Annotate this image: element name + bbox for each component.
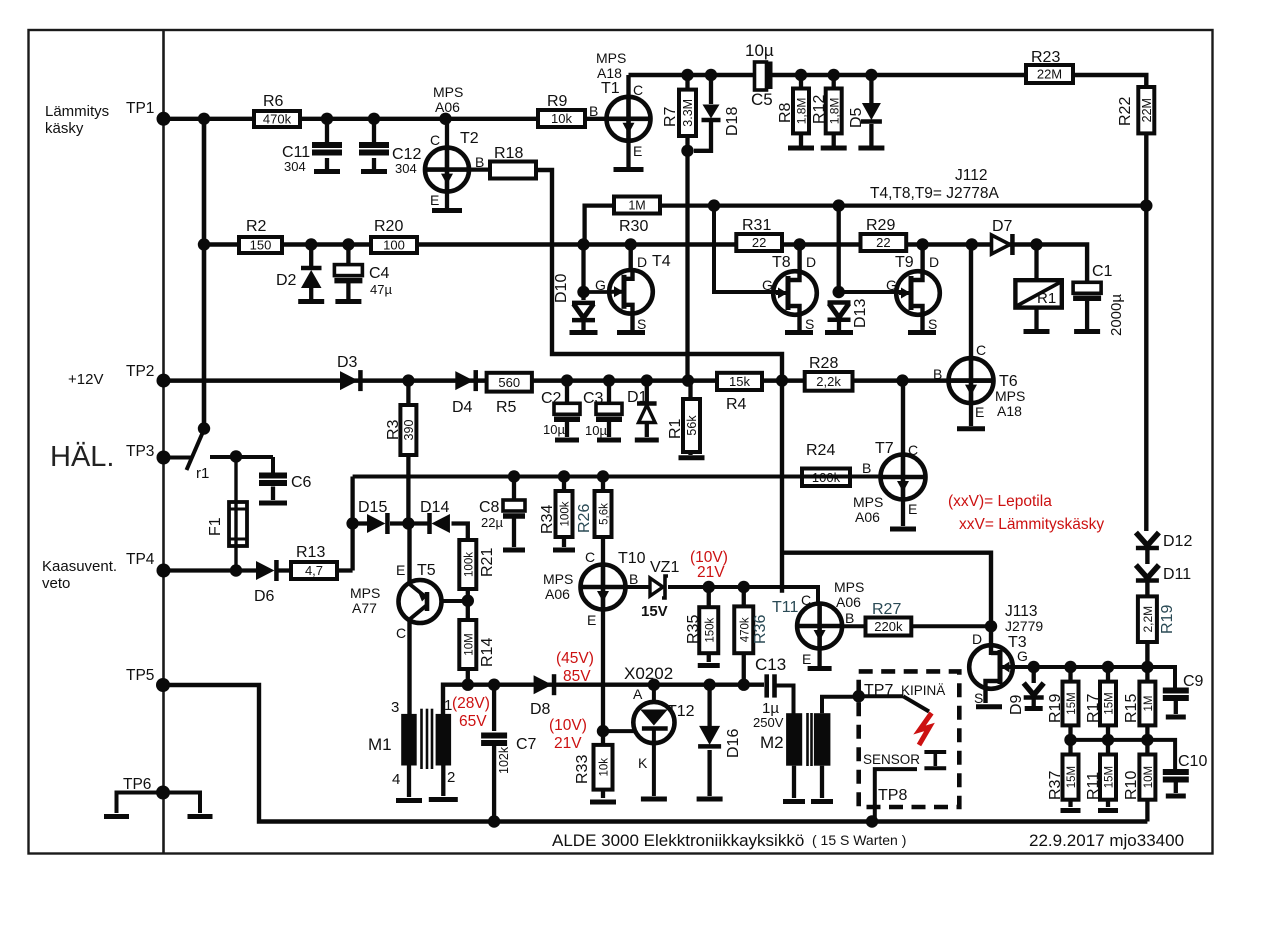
transistor T11 bbox=[797, 604, 842, 649]
svg-text:304: 304 bbox=[395, 161, 417, 176]
wire TP5 to bottom rail bbox=[163, 685, 1147, 822]
svg-text:D2: D2 bbox=[276, 272, 297, 289]
svg-text:r1: r1 bbox=[196, 465, 209, 482]
svg-text:D6: D6 bbox=[254, 588, 275, 605]
svg-text:D5: D5 bbox=[848, 107, 865, 128]
svg-text:560: 560 bbox=[498, 375, 520, 390]
svg-text:TP8: TP8 bbox=[878, 787, 907, 804]
wire TP8 bbox=[875, 769, 917, 821]
wire T2 emitter bbox=[445, 192, 449, 208]
switch spark gap bbox=[859, 694, 903, 698]
svg-text:TP5: TP5 bbox=[126, 667, 154, 684]
wire R14 bottom bbox=[466, 669, 470, 685]
svg-text:D: D bbox=[929, 254, 939, 270]
svg-text:304: 304 bbox=[284, 159, 306, 174]
svg-text:102k: 102k bbox=[497, 746, 511, 774]
svg-text:D13: D13 bbox=[852, 299, 869, 328]
svg-text:R21: R21 bbox=[479, 548, 496, 577]
resistor R15 bbox=[1145, 667, 1149, 740]
svg-text:B: B bbox=[589, 103, 598, 119]
svg-text:22µ: 22µ bbox=[481, 515, 503, 530]
fuse F1 bbox=[234, 457, 237, 569]
wire +12V rail bbox=[164, 378, 994, 383]
resistor R27 bbox=[866, 618, 912, 636]
wire M2 left bottom bbox=[792, 766, 796, 798]
capacitor C4 bbox=[346, 245, 350, 265]
svg-text:21V: 21V bbox=[554, 735, 582, 752]
svg-text:TP3: TP3 bbox=[126, 443, 154, 460]
svg-text:TP4: TP4 bbox=[126, 551, 155, 568]
resistor R7 bbox=[685, 75, 689, 151]
transistor T7 bbox=[901, 381, 905, 455]
svg-text:B: B bbox=[862, 460, 871, 476]
diode D5 bbox=[869, 75, 873, 103]
wire T11 emitter bbox=[817, 649, 821, 667]
svg-text:D: D bbox=[806, 254, 816, 270]
svg-text:R23: R23 bbox=[1031, 49, 1060, 66]
svg-text:MPS: MPS bbox=[995, 388, 1025, 404]
svg-text:R10: R10 bbox=[1123, 771, 1140, 800]
svg-text:A06: A06 bbox=[855, 509, 880, 525]
svg-text:D11: D11 bbox=[1163, 566, 1191, 583]
svg-text:D12: D12 bbox=[1163, 533, 1192, 550]
svg-text:A77: A77 bbox=[352, 600, 377, 616]
svg-text:22.9.2017 mjo33400: 22.9.2017 mjo33400 bbox=[1029, 831, 1184, 850]
svg-text:R15: R15 bbox=[1123, 694, 1140, 723]
svg-text:käsky: käsky bbox=[45, 120, 84, 137]
svg-text:4: 4 bbox=[392, 771, 400, 788]
svg-text:B: B bbox=[933, 366, 942, 382]
diode D4 bbox=[455, 371, 473, 390]
svg-text:150: 150 bbox=[250, 238, 272, 253]
resistor R13 bbox=[278, 568, 291, 572]
svg-text:15M: 15M bbox=[1066, 766, 1078, 788]
svg-text:100k: 100k bbox=[560, 501, 572, 526]
svg-text:T1: T1 bbox=[601, 80, 620, 97]
svg-text:390: 390 bbox=[402, 420, 416, 441]
svg-text:+12V: +12V bbox=[68, 371, 103, 388]
resistor R34 bbox=[562, 477, 566, 548]
svg-text:R12: R12 bbox=[811, 95, 828, 124]
svg-text:R17: R17 bbox=[1085, 694, 1102, 723]
svg-text:C: C bbox=[585, 549, 595, 565]
svg-text:E: E bbox=[802, 651, 811, 667]
svg-text:R19: R19 bbox=[1159, 605, 1176, 634]
wire T9 source bbox=[920, 313, 924, 330]
svg-text:T5: T5 bbox=[417, 562, 436, 579]
wire top rail bbox=[629, 75, 1147, 87]
capacitor C6 bbox=[271, 457, 275, 474]
left bus divider line bbox=[162, 30, 165, 854]
svg-text:J112: J112 bbox=[955, 167, 987, 184]
svg-text:R31: R31 bbox=[742, 217, 771, 234]
svg-text:G: G bbox=[595, 277, 606, 293]
svg-text:15M: 15M bbox=[1104, 766, 1116, 788]
wire TP1 rail bbox=[164, 117, 607, 121]
svg-text:22M: 22M bbox=[1140, 98, 1154, 122]
svg-text:250V: 250V bbox=[753, 715, 784, 730]
svg-text:D: D bbox=[972, 631, 982, 647]
svg-text:R11: R11 bbox=[1085, 772, 1102, 800]
resistor R19b 15M bbox=[1068, 667, 1072, 740]
svg-text:2,2M: 2,2M bbox=[1141, 606, 1155, 633]
svg-text:R1: R1 bbox=[1037, 290, 1056, 307]
svg-text:22: 22 bbox=[876, 235, 890, 250]
wire R27 to T3 drain node bbox=[911, 624, 991, 628]
capacitor C12 bbox=[372, 119, 376, 143]
resistor R28 bbox=[805, 372, 853, 391]
svg-text:SENSOR: SENSOR bbox=[863, 752, 920, 767]
wire T3 gate rail bbox=[1013, 667, 1175, 690]
svg-text:K: K bbox=[638, 755, 648, 771]
resistor R21 bbox=[459, 540, 476, 589]
svg-text:VZ1: VZ1 bbox=[650, 559, 679, 576]
wire T5 base bbox=[440, 599, 468, 603]
sensor electrode symbol bbox=[924, 750, 946, 754]
svg-text:E: E bbox=[430, 192, 439, 208]
svg-text:( 15 S Warten ): ( 15 S Warten ) bbox=[812, 832, 906, 848]
resistor R8 bbox=[799, 75, 803, 146]
resistor R12 bbox=[832, 75, 836, 146]
diode D2 bbox=[309, 245, 313, 267]
svg-text:10µ: 10µ bbox=[745, 41, 774, 60]
svg-text:10M: 10M bbox=[1143, 766, 1155, 788]
resistor R5 bbox=[487, 373, 532, 392]
svg-text:R8: R8 bbox=[777, 102, 794, 123]
resistor R30 bbox=[614, 197, 660, 214]
svg-text:D7: D7 bbox=[992, 218, 1013, 235]
svg-text:R14: R14 bbox=[479, 638, 496, 667]
svg-text:T3: T3 bbox=[1008, 634, 1027, 651]
wire T12 cathode bar bbox=[641, 797, 667, 802]
wire rail E bbox=[353, 475, 881, 479]
svg-text:R20: R20 bbox=[374, 218, 403, 235]
svg-text:10µ: 10µ bbox=[585, 423, 607, 438]
svg-text:T9: T9 bbox=[895, 254, 914, 271]
svg-text:R19: R19 bbox=[1047, 694, 1064, 723]
svg-text:J2779: J2779 bbox=[1005, 618, 1043, 634]
svg-text:D1: D1 bbox=[627, 389, 648, 406]
svg-text:D14: D14 bbox=[420, 499, 449, 516]
wire r1 to C6/F1 bbox=[210, 455, 273, 459]
diode D14 bbox=[410, 521, 431, 525]
svg-text:veto: veto bbox=[42, 575, 70, 592]
svg-text:1M: 1M bbox=[628, 199, 645, 213]
diode D10 bbox=[572, 301, 595, 306]
zener VZ1 bbox=[626, 585, 651, 589]
capacitor C5 bbox=[755, 62, 767, 90]
svg-text:C2: C2 bbox=[541, 390, 562, 407]
svg-text:T11: T11 bbox=[772, 599, 798, 616]
transistor T2 bbox=[445, 119, 449, 148]
resistor R2 bbox=[239, 237, 282, 253]
diode D1 bbox=[645, 381, 649, 402]
resistor R26 bbox=[601, 477, 605, 565]
wire R13 to D15 node bbox=[337, 568, 353, 572]
capacitor C13 bbox=[764, 674, 769, 697]
svg-text:21V: 21V bbox=[697, 564, 725, 581]
svg-text:R22: R22 bbox=[1117, 97, 1134, 126]
svg-text:A: A bbox=[633, 686, 643, 702]
transistor T4 bbox=[629, 245, 633, 271]
svg-text:(28V): (28V) bbox=[452, 695, 490, 712]
svg-text:D3: D3 bbox=[337, 354, 358, 371]
svg-text:R13: R13 bbox=[296, 544, 325, 561]
svg-text:TP6: TP6 bbox=[123, 776, 151, 793]
svg-text:5,6k: 5,6k bbox=[599, 503, 611, 525]
diode D16 bbox=[707, 685, 711, 726]
wire mid network rail bbox=[1071, 738, 1148, 742]
resistor R4 bbox=[717, 373, 762, 390]
svg-text:470k: 470k bbox=[739, 617, 751, 642]
svg-text:D: D bbox=[637, 254, 647, 270]
svg-text:3.3M: 3.3M bbox=[681, 99, 695, 127]
svg-text:KIPINÄ: KIPINÄ bbox=[901, 683, 945, 698]
svg-text:T4: T4 bbox=[652, 253, 671, 270]
resistor R18 bbox=[490, 162, 536, 179]
svg-text:C10: C10 bbox=[1178, 753, 1207, 770]
wire TP4 rail bbox=[164, 568, 257, 572]
svg-text:B: B bbox=[845, 610, 854, 626]
svg-text:15V: 15V bbox=[641, 603, 668, 620]
svg-text:TP1: TP1 bbox=[126, 100, 154, 117]
svg-text:R7: R7 bbox=[662, 106, 679, 127]
svg-text:R4: R4 bbox=[726, 396, 747, 413]
wire C13 to M2 bbox=[777, 686, 794, 715]
ground TP6 bbox=[117, 793, 164, 814]
svg-text:TP2: TP2 bbox=[126, 363, 154, 380]
transistor T6 bbox=[969, 245, 973, 360]
capacitor C8 bbox=[512, 477, 516, 501]
svg-text:10k: 10k bbox=[599, 758, 611, 777]
svg-text:D8: D8 bbox=[530, 701, 551, 718]
svg-text:E: E bbox=[396, 562, 405, 578]
resistor R29 bbox=[861, 234, 907, 251]
resistor R3 bbox=[406, 381, 410, 524]
svg-text:R3: R3 bbox=[385, 419, 402, 440]
svg-text:R18: R18 bbox=[494, 145, 523, 162]
diode D18 bbox=[709, 75, 713, 104]
svg-text:1M: 1M bbox=[1143, 696, 1155, 712]
svg-text:D16: D16 bbox=[725, 729, 742, 758]
svg-text:B: B bbox=[629, 571, 638, 587]
svg-text:56k: 56k bbox=[685, 415, 699, 436]
resistor R11 bbox=[1106, 740, 1110, 807]
svg-text:T4,T8,T9= J2778A: T4,T8,T9= J2778A bbox=[870, 185, 999, 202]
svg-text:C: C bbox=[430, 132, 440, 148]
svg-text:T10: T10 bbox=[618, 550, 646, 567]
transistor T3 bbox=[989, 626, 993, 655]
diode D8 bbox=[534, 675, 552, 694]
switch r1 bbox=[164, 456, 192, 460]
wire T9 gate bbox=[839, 290, 905, 294]
svg-text:65V: 65V bbox=[459, 713, 487, 730]
svg-text:2: 2 bbox=[447, 769, 455, 786]
resistor R17 bbox=[1106, 667, 1110, 740]
svg-text:C: C bbox=[908, 442, 918, 458]
wire M1 left bottom bbox=[407, 766, 411, 798]
svg-text:Kaasuvent.: Kaasuvent. bbox=[42, 558, 117, 575]
svg-text:R37: R37 bbox=[1047, 771, 1064, 800]
svg-text:10M: 10M bbox=[463, 633, 475, 655]
diode D15 bbox=[353, 521, 367, 525]
svg-text:A06: A06 bbox=[836, 594, 861, 610]
svg-text:ALDE 3000 Elekktroniikkayksik: ALDE 3000 Elekktroniikkayksikkö bbox=[552, 831, 804, 850]
transformer M2 bbox=[786, 713, 802, 766]
svg-text:D4: D4 bbox=[452, 399, 473, 416]
svg-text:100k: 100k bbox=[463, 552, 475, 577]
svg-text:C5: C5 bbox=[751, 90, 773, 109]
capacitor C7 bbox=[492, 685, 496, 731]
svg-text:R24: R24 bbox=[806, 442, 835, 459]
svg-text:D10: D10 bbox=[553, 274, 570, 303]
svg-text:Lämmitys: Lämmitys bbox=[45, 103, 109, 120]
wire T5 collector bbox=[407, 618, 411, 714]
svg-text:E: E bbox=[633, 143, 642, 159]
svg-text:R9: R9 bbox=[547, 93, 568, 110]
resistor R9 bbox=[538, 110, 585, 127]
resistor R31 bbox=[736, 234, 782, 251]
svg-text:MPS: MPS bbox=[596, 50, 626, 66]
wire rail E left drop bbox=[350, 477, 354, 571]
svg-text:R26: R26 bbox=[576, 504, 593, 533]
thyristor T12 bbox=[652, 685, 656, 703]
svg-text:S: S bbox=[974, 690, 983, 706]
resistor R36 bbox=[742, 587, 746, 685]
wire T8 source bbox=[797, 313, 801, 330]
svg-text:xxV= Lämmityskäsky: xxV= Lämmityskäsky bbox=[959, 516, 1104, 533]
capacitor C1 bbox=[1085, 280, 1089, 285]
svg-text:47µ: 47µ bbox=[370, 282, 392, 297]
svg-text:X0202: X0202 bbox=[624, 664, 673, 683]
svg-text:C4: C4 bbox=[369, 265, 390, 282]
svg-text:MPS: MPS bbox=[853, 494, 883, 510]
wire TP1 bus down bbox=[202, 119, 207, 429]
svg-text:22M: 22M bbox=[1037, 67, 1062, 82]
svg-text:D9: D9 bbox=[1008, 694, 1025, 715]
wire D15 to node bbox=[390, 521, 410, 525]
svg-text:D15: D15 bbox=[358, 499, 387, 516]
svg-text:S: S bbox=[805, 316, 814, 332]
svg-text:150k: 150k bbox=[704, 617, 716, 642]
svg-text:M1: M1 bbox=[368, 735, 392, 754]
resistor R20 bbox=[371, 237, 417, 253]
wire T10 emitter to R33 bbox=[601, 610, 605, 799]
resistor R6 bbox=[254, 111, 300, 127]
svg-text:4,7: 4,7 bbox=[305, 563, 323, 578]
svg-text:E: E bbox=[587, 612, 596, 628]
wire D14 to R21 bbox=[452, 524, 468, 541]
capacitor C2 bbox=[565, 381, 569, 403]
svg-text:MPS: MPS bbox=[433, 84, 463, 100]
svg-text:C: C bbox=[633, 82, 643, 98]
dashed box TP7/TP8 bbox=[859, 671, 960, 807]
wire T7 emitter bbox=[901, 500, 905, 527]
svg-text:C6: C6 bbox=[291, 474, 312, 491]
wire to C10 bbox=[1147, 740, 1175, 771]
wire R18 node to T3 drain bbox=[782, 553, 991, 628]
svg-text:F1: F1 bbox=[207, 517, 224, 536]
wire R22 down to 1M rail bbox=[1144, 133, 1148, 205]
svg-text:C3: C3 bbox=[583, 390, 604, 407]
svg-text:MPS: MPS bbox=[350, 585, 380, 601]
wire T8 gate bbox=[714, 206, 782, 292]
svg-text:C8: C8 bbox=[479, 499, 500, 516]
svg-text:D18: D18 bbox=[724, 107, 741, 136]
svg-text:C: C bbox=[801, 592, 811, 608]
svg-text:100: 100 bbox=[383, 238, 405, 253]
svg-text:T2: T2 bbox=[460, 130, 479, 147]
transistor T8 bbox=[797, 245, 801, 273]
resistor R19a 2.2M bbox=[1145, 581, 1149, 667]
svg-text:T8: T8 bbox=[772, 254, 791, 271]
wire T2 base bbox=[469, 167, 490, 171]
wire R21 to base node bbox=[466, 589, 470, 620]
svg-text:15M: 15M bbox=[1104, 692, 1116, 714]
svg-text:R27: R27 bbox=[872, 601, 901, 618]
svg-text:15M: 15M bbox=[1066, 692, 1078, 714]
svg-text:22: 22 bbox=[752, 235, 766, 250]
diode D7 bbox=[992, 235, 1010, 254]
svg-text:470k: 470k bbox=[263, 112, 292, 127]
svg-text:C9: C9 bbox=[1183, 673, 1204, 690]
transistor T5 bbox=[407, 524, 411, 586]
svg-text:MPS: MPS bbox=[543, 571, 573, 587]
diode D11 bbox=[1136, 565, 1159, 578]
svg-text:15k: 15k bbox=[729, 374, 750, 389]
svg-text:HÄL.: HÄL. bbox=[50, 441, 114, 473]
resistor R23 bbox=[1026, 65, 1073, 83]
svg-text:MPS: MPS bbox=[834, 579, 864, 595]
capacitor C10 bbox=[1163, 769, 1189, 775]
diode D3 bbox=[340, 371, 358, 390]
resistor R35 bbox=[707, 587, 711, 662]
svg-text:E: E bbox=[975, 404, 984, 420]
wire T12 gate bbox=[603, 729, 636, 733]
wire M1 right bottom bbox=[441, 766, 445, 797]
resistor R1b 56k bbox=[688, 381, 692, 455]
wire R7 bottom to +12V rail bbox=[685, 151, 689, 381]
svg-text:R1: R1 bbox=[667, 418, 684, 439]
wire M2 right bottom bbox=[820, 766, 824, 798]
wire M2 right top to TP7 box bbox=[822, 697, 859, 714]
resistor R14 bbox=[459, 620, 476, 669]
svg-text:10k: 10k bbox=[551, 111, 572, 126]
resistor R37 bbox=[1068, 740, 1072, 807]
diode D10 line and T4 gate bbox=[581, 245, 585, 301]
diode D6 bbox=[256, 561, 274, 580]
diode D9 bbox=[1032, 667, 1036, 683]
wire T4 source bbox=[630, 312, 634, 331]
svg-text:R5: R5 bbox=[496, 399, 517, 416]
svg-text:A18: A18 bbox=[597, 65, 622, 81]
transistor T1 bbox=[626, 75, 630, 97]
resistor R22 bbox=[1138, 87, 1154, 133]
wire right bus bbox=[1144, 206, 1148, 531]
wire D12 to D11 bbox=[1145, 549, 1149, 564]
svg-text:S: S bbox=[637, 316, 646, 332]
wire 1M rail bbox=[585, 206, 614, 245]
svg-text:M2: M2 bbox=[760, 733, 784, 752]
relay R1 bbox=[1034, 245, 1038, 281]
wire T1 emitter bbox=[626, 141, 630, 167]
svg-text:S: S bbox=[928, 316, 937, 332]
svg-text:C13: C13 bbox=[755, 655, 786, 674]
svg-text:R36: R36 bbox=[752, 615, 769, 644]
resistor R24 bbox=[802, 469, 850, 487]
svg-text:R35: R35 bbox=[685, 615, 702, 644]
svg-text:C1: C1 bbox=[1092, 263, 1113, 280]
